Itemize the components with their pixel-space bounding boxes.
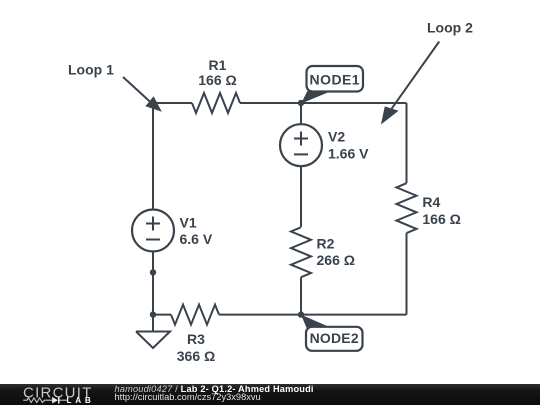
wire R2 to NODE2 [300,277,302,314]
arrow Loop 2 [381,42,439,125]
svg-text:R4: R4 [422,194,440,210]
label R2 266 ohm [317,235,355,268]
label V1 6.6 V [180,215,213,248]
ground [136,332,170,349]
svg-text:266 Ω: 266 Ω [317,252,355,268]
label V2 1.66 V [328,129,369,162]
svg-text:NODE1: NODE1 [310,71,360,87]
wire top-left corner to R1 [153,102,192,104]
svg-text:166 Ω: 166 Ω [198,72,236,88]
resistor R1 [192,93,240,113]
resistor R4 [397,183,417,233]
wire V2 to R2 [300,166,302,227]
label R1 166 ohm [198,57,236,88]
svg-text:V1: V1 [180,215,197,231]
svg-text:R3: R3 [187,331,205,347]
svg-text:LAB: LAB [67,396,95,405]
label Loop 1 [68,62,114,78]
voltage source V2 [280,124,322,166]
svg-text:6.6 V: 6.6 V [180,231,213,247]
svg-text:166 Ω: 166 Ω [422,211,460,227]
svg-text:366 Ω: 366 Ω [177,348,215,364]
node NODE2 junction dot [298,311,304,317]
wire NODE1 to V2 [300,103,302,124]
label R3 366 ohm [177,331,215,364]
wire bottom-left to R3 [153,314,171,316]
label Loop 2 [427,20,473,36]
resistor R3 [171,305,219,325]
wire right rail top (corner to R4) [406,103,408,183]
voltage source V1 [132,210,174,252]
node junction dot at bottom-left corner [150,311,156,317]
svg-text:Loop 1: Loop 1 [68,62,114,78]
resistor R2 [291,227,311,277]
wire R3 to NODE2 to bottom-right corner [219,314,407,316]
wire R1 to NODE1 to top-right corner [240,102,407,104]
footer bar [0,384,540,405]
node label NODE2 [301,315,363,351]
wire right rail bottom (R4 to corner) [406,233,408,315]
svg-text:R2: R2 [317,235,335,251]
wire V1 to bottom rail and ground [152,252,154,332]
svg-text:NODE2: NODE2 [310,330,359,346]
svg-text:1.66 V: 1.66 V [328,146,369,162]
arrow Loop 1 [123,77,162,112]
svg-text:V2: V2 [328,129,345,145]
label R4 166 ohm [422,194,460,227]
logo CircuitLab [20,386,105,405]
footer url line [115,393,261,402]
node junction dot below V1 [150,269,156,275]
wire left rail top (corner to V1) [152,103,154,210]
svg-text:R1: R1 [209,57,227,73]
node NODE1 junction dot [298,100,304,106]
node label NODE1 [301,66,363,104]
footer title line [115,385,314,394]
svg-text:Loop 2: Loop 2 [427,20,473,36]
